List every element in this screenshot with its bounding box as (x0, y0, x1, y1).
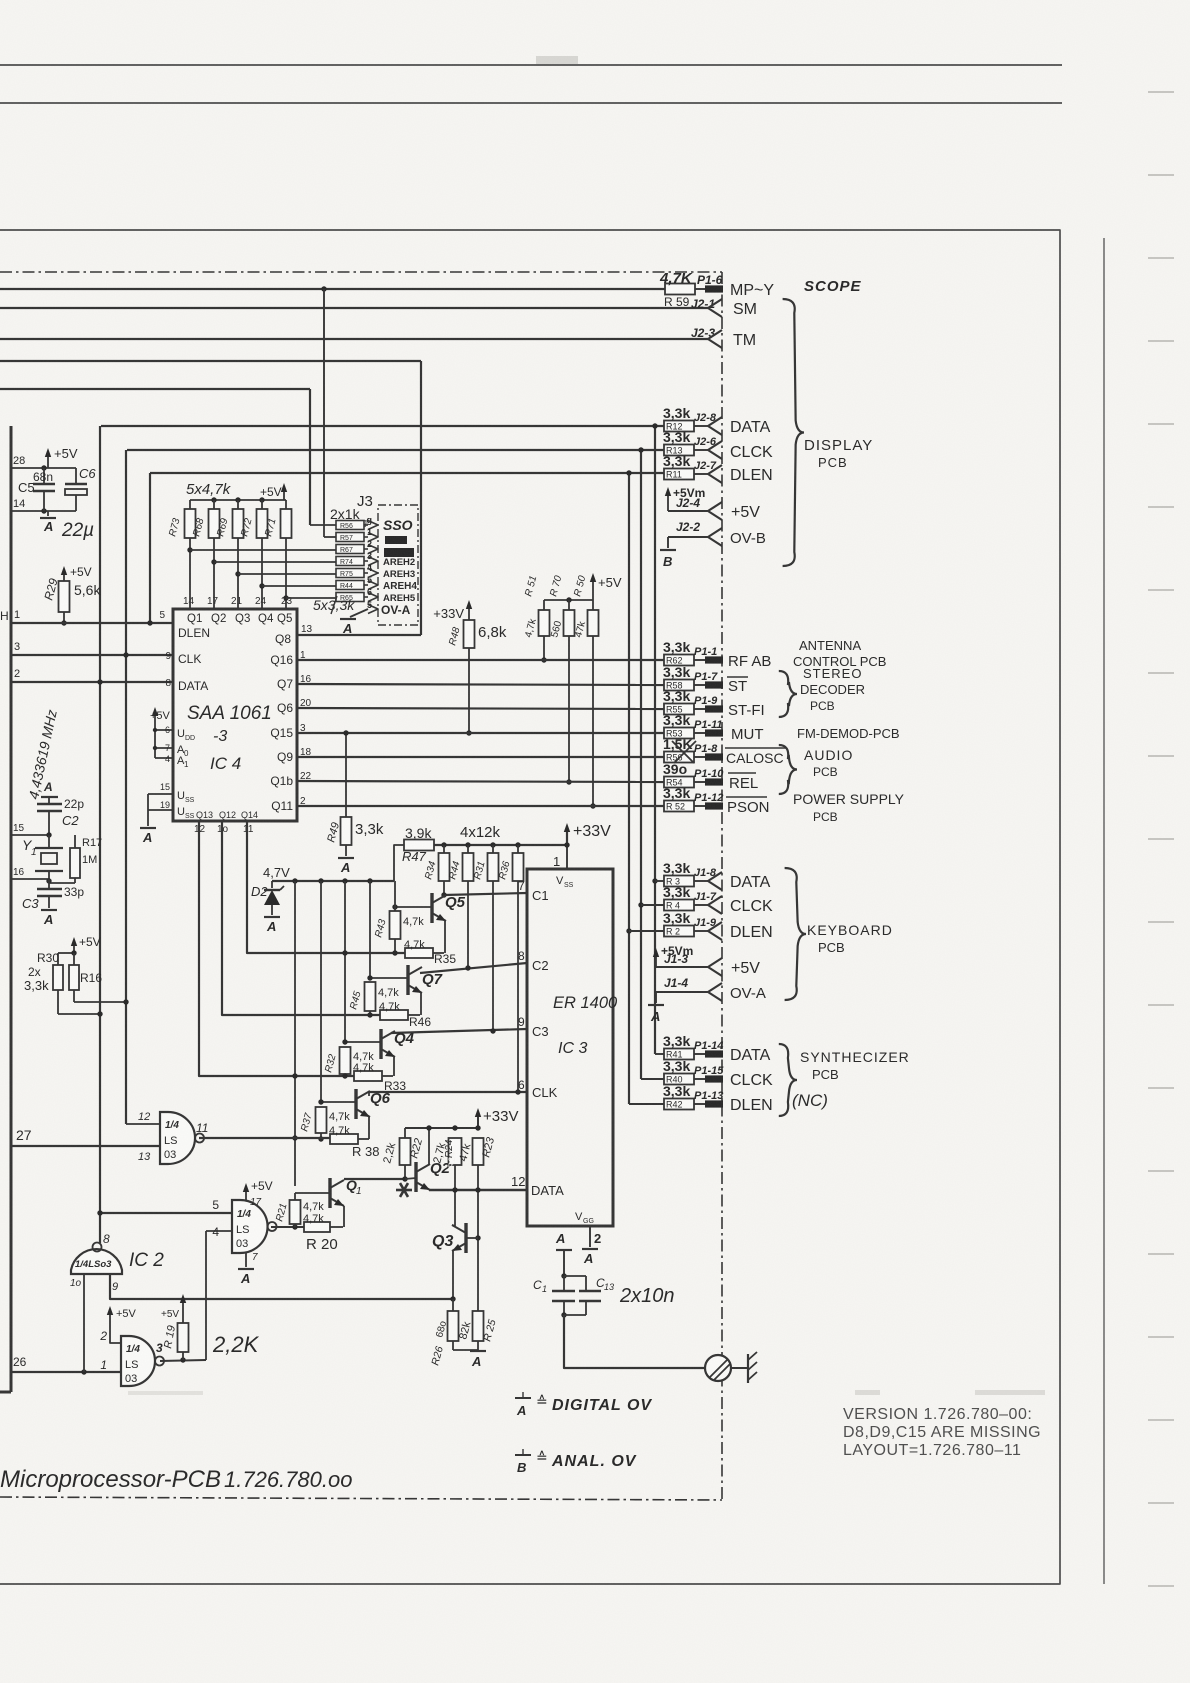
wire CLK er1400 (368, 1091, 527, 1093)
wire 4,7V bus (272, 880, 394, 882)
wire to chassis (564, 1315, 706, 1368)
connector pin arrow J3 row R65 (368, 593, 378, 602)
junction R24 DATA (452, 1187, 457, 1192)
wire CLK bus vertical (125, 450, 127, 1124)
junction C1 R34 (441, 892, 446, 897)
wire DLEN display line (150, 472, 664, 474)
junction base Q5 (392, 904, 397, 909)
analog 0V legend (515, 1454, 531, 1456)
pin 1 wire DLEN (11, 622, 173, 624)
junction base Q7 (367, 975, 372, 980)
junction R16 (123, 999, 128, 1004)
connector pin arrow J3 row R67 (368, 545, 378, 554)
IC SAA1061 IC4 box (173, 609, 297, 821)
brace KEYBOARD (785, 868, 806, 1000)
wire Q6 STFI line (297, 708, 664, 709)
junction base Q4 (342, 1039, 347, 1044)
resistor R44b (467, 845, 469, 853)
resistor R69 (237, 500, 239, 509)
junction DLEN bus top (626, 470, 631, 475)
junction bus x345 (342, 878, 347, 883)
resistor R38 (330, 1134, 358, 1144)
resistor R44 (336, 581, 364, 590)
wire Q6 collector to CLK (368, 1092, 370, 1096)
junction bus x321 (318, 878, 323, 883)
G2 +5V pin 14 (245, 1187, 247, 1200)
junction R73 row (187, 547, 192, 552)
resistor R59 4,7K (665, 284, 695, 295)
wire Vss (566, 845, 568, 869)
junction R51 RFAB (541, 657, 546, 662)
gate G2 1/4 LS03 (232, 1200, 268, 1253)
resistor R32 (340, 1047, 351, 1074)
capacitor C1 (563, 1276, 565, 1291)
wire R40 corner (641, 1078, 664, 1080)
pin 28 wire (11, 467, 76, 469)
wire Q8 pin13 (297, 634, 421, 636)
wire G1 output (199, 1137, 330, 1139)
gate G4 1/4 LS03 (121, 1336, 155, 1386)
+33V rail Q2 (405, 1127, 478, 1129)
crystal Y1 (35, 847, 63, 849)
resistor R54 (664, 777, 694, 788)
wire base lead Q4 (345, 1041, 381, 1043)
junction R36 (515, 842, 520, 847)
connector J3 box dash-dot (378, 505, 418, 625)
resistor R20 (304, 1222, 330, 1232)
rung Q4 (344, 881, 346, 1042)
wire G2 input 5 (100, 1212, 232, 1214)
junction x295 G1out (292, 1135, 297, 1140)
wire G2 output (271, 1226, 304, 1228)
junction R72 row (259, 583, 264, 588)
junction R21 bottom (292, 1224, 297, 1229)
transistor Q5 (430, 893, 433, 923)
resistor R67 (336, 545, 364, 554)
resistor R55 (664, 704, 694, 715)
transistor Q3 (464, 1223, 467, 1253)
wire R2 (629, 930, 664, 932)
junction R32 bottom (342, 1073, 347, 1078)
junction R3 (652, 878, 657, 883)
wire R30 to DATA bus (57, 990, 59, 1014)
resistor R26 (452, 1299, 454, 1311)
resistor R41 (664, 1049, 694, 1060)
pin 27 wire (11, 1145, 160, 1147)
ground A R25 (453, 1349, 478, 1351)
transistor Q6 (354, 1089, 357, 1119)
resistor R45 (365, 982, 376, 1011)
resistors R30 R16 2x3,3k (73, 941, 75, 953)
junction C5 bottom (41, 508, 46, 513)
wire G2 input 4 (206, 1230, 232, 1232)
junction C1 top (561, 1273, 566, 1278)
wire Q2 collector (428, 1128, 430, 1165)
resistor R19 (182, 1298, 184, 1310)
+5Vm arrow J2-4 (667, 491, 669, 511)
resistor R 4 (664, 900, 694, 911)
capacitor C3 (48, 879, 50, 889)
+5Vm arrow J1-3 (655, 952, 657, 967)
junction rail R23 (475, 1125, 480, 1130)
connector stub MP-Y (705, 285, 723, 292)
resistor R23 (473, 1138, 484, 1165)
chassis earth circle (705, 1355, 731, 1381)
wire SSO top line (0, 388, 310, 390)
brace STEREO (779, 671, 797, 717)
wire AREH3 row (238, 573, 336, 575)
resistor R56 (336, 521, 364, 530)
resistor R53 (664, 728, 694, 739)
wire R41 corner (655, 1053, 664, 1055)
ground A D2 (264, 916, 280, 918)
resistor R43 (390, 911, 401, 939)
brace AUDIO (779, 745, 797, 794)
junction R31 (490, 842, 495, 847)
IC ER1400 IC3 box (527, 869, 613, 1226)
ground A R49 (338, 857, 354, 859)
junction CLK R36 (515, 1089, 520, 1094)
paper texture (0, 0, 1, 1)
resistor R 52 (664, 801, 694, 812)
wire C3 (391, 1029, 527, 1033)
PCB boundary dash-dot right (721, 272, 723, 1500)
junction CLK (123, 652, 128, 657)
junction C3 R31 (490, 1028, 495, 1033)
wire row2 (323, 523, 325, 537)
junction C2 R44 (465, 965, 470, 970)
junction R68 row (211, 559, 216, 564)
wire J1-3 (656, 966, 708, 968)
wire DLEN bus right vertical (628, 473, 630, 1104)
pin 26 wire (11, 1371, 121, 1373)
ground A J3 (350, 609, 368, 617)
resistor R70 (568, 600, 570, 610)
resistor R21 (294, 1193, 296, 1200)
wire R16 to CLK bus (73, 990, 75, 1002)
junction C3 top (46, 878, 51, 883)
resistor R46 (380, 1010, 408, 1020)
wire base lead Q7 (370, 977, 408, 979)
ground A C3 (41, 909, 57, 911)
wire R3 (655, 880, 664, 882)
wire SSO drop (323, 289, 325, 523)
resistor R31 (492, 845, 494, 853)
resistor R40 (664, 1074, 694, 1085)
resistor R48 +33V (468, 604, 470, 620)
wire AREH5 row (286, 597, 336, 599)
resistor R68 (213, 500, 215, 509)
junction C5 top (41, 465, 46, 470)
wire pin11 route (247, 821, 405, 953)
junction bus Q4 pin11 (342, 950, 347, 955)
junction x295 pin12 (292, 1073, 297, 1078)
ground A C5 (47, 511, 49, 516)
wire DATA bus vertical (99, 426, 101, 1243)
vertical x295 (294, 881, 296, 1186)
pin 3 wire CLK (11, 654, 173, 656)
wire Q10 REL line (297, 781, 664, 782)
wire C2 (420, 963, 527, 973)
resistor R33 (354, 1071, 382, 1081)
wire DLEN vertical (149, 473, 151, 623)
resistor R73 (189, 500, 191, 509)
resistor R56 (664, 752, 694, 763)
resistor R49 (345, 733, 347, 817)
wire J2-2 (668, 536, 708, 538)
resistor R51 (543, 600, 545, 610)
junction R34 (441, 842, 446, 847)
wire Q9 CALOSC line (297, 756, 664, 758)
junction R37 bottom (318, 1136, 323, 1141)
resistor R22 (404, 1128, 406, 1138)
junction Y1 top (46, 832, 51, 837)
transistor Q2 (414, 1162, 417, 1192)
junction G2 in5 (97, 1210, 102, 1215)
resistor R72 (261, 500, 263, 509)
junction CLCK bus top (638, 447, 643, 452)
SAA pin Udd +5V (154, 711, 156, 730)
resistor R17 (74, 835, 76, 848)
junction pin26 gate (81, 1369, 86, 1374)
pin 2 Vgg ground (589, 1226, 591, 1247)
rung Q6 (320, 881, 322, 1102)
junction R44 (465, 842, 470, 847)
page edge ticks (1148, 91, 1174, 93)
resistor R71 (285, 500, 287, 509)
junction Q3 base (475, 1235, 480, 1240)
wire R42 corner (629, 1103, 664, 1105)
resistor R35 (405, 948, 433, 958)
resistor R36 (517, 845, 519, 853)
capacitor C2 (37, 803, 62, 805)
wire R4 (641, 904, 664, 906)
capacitor C13 (579, 1290, 601, 1293)
connector pin arrow J3 row R56 (368, 521, 378, 530)
resistor R58 (664, 680, 694, 691)
junction DATA bus top (652, 423, 657, 428)
wire Q16 RFAB line (297, 659, 664, 661)
PCB boundary dash-dot top (0, 271, 722, 273)
junction R71 row (283, 595, 288, 600)
junction bus x370 (367, 878, 372, 883)
junction R50 PSON (590, 803, 595, 808)
page binding mark line (1103, 238, 1105, 1584)
resistor R13 (664, 445, 694, 456)
resistor R25 (473, 1311, 484, 1341)
wire Q7 ST line (297, 684, 664, 685)
wire DATA er1400 (429, 1189, 527, 1191)
brace SYNTHESIZER (779, 1044, 797, 1116)
junction R30 (97, 1011, 102, 1016)
connector pin arrow J3 row R74 (368, 557, 378, 566)
J3 signal OUT (385, 536, 407, 544)
wire DATA bus right vertical (654, 426, 656, 1054)
resistor R42 (664, 1099, 694, 1110)
J3 OV-A pin arrow (368, 605, 378, 614)
PCB boundary dash-dot bottom (0, 1497, 722, 1500)
wire Q15 MUT line (297, 732, 664, 734)
connector pin arrow J3 row R75 (368, 569, 378, 578)
wire AREH2 row (214, 561, 336, 563)
resistor R24 (449, 1138, 462, 1165)
chassis ground symbol (747, 1354, 749, 1383)
wire CLCK display line (127, 449, 664, 451)
G3 left leg (83, 1274, 85, 1372)
wire Q11 PSON line (297, 805, 664, 807)
wire C1 (444, 893, 527, 895)
junction R45 bottom (367, 1012, 372, 1017)
wire pin12 route (199, 821, 354, 1076)
wire G4 input 2 +5V (110, 1323, 121, 1343)
gate G1 1/4 LS03 (160, 1112, 195, 1164)
capacitor C6 (75, 468, 77, 484)
page rule top 1 (0, 64, 1062, 66)
page rule top 2 (0, 102, 1062, 104)
transistor Q1 (328, 1178, 331, 1208)
connector pin arrow J3 row R57 (368, 533, 378, 542)
wire TM line (0, 338, 708, 340)
wire SM line (0, 307, 708, 309)
G2 pin 7 ground (245, 1253, 247, 1267)
wire DATA display line (101, 425, 664, 427)
pin 2 wire DATA (11, 681, 173, 683)
asterisk (396, 1189, 412, 1192)
resistor R62 (664, 655, 694, 666)
pin 16 wire (11, 878, 49, 880)
ground B (660, 549, 676, 551)
resistor R29 (63, 570, 65, 581)
junction C1 bottom (561, 1312, 566, 1317)
wire base lead Q6 (321, 1101, 356, 1103)
wire G4 output (160, 1360, 206, 1361)
G3 right leg to long line (110, 1274, 453, 1299)
wire Q1 collector to Q2 base (344, 1178, 405, 1180)
junction R19 bottom (180, 1357, 185, 1362)
wire MP-Y line (0, 288, 666, 290)
junction R48 MUT (466, 730, 471, 735)
digital 0V legend (515, 1397, 531, 1399)
wire Q2 base lead (405, 1178, 416, 1179)
ground A Uss (140, 827, 156, 829)
brace DISPLAY PCB (783, 299, 804, 566)
SAA pin Uss ground (148, 793, 173, 795)
wire G1 input 12 (126, 1123, 160, 1125)
junction R29 (61, 620, 66, 625)
rail R51 R70 R50 +5V (544, 599, 593, 601)
wire J2-4 (668, 510, 708, 512)
junction R43 bottom (392, 950, 397, 955)
microprocessor IC edge (10, 426, 13, 1392)
junction R70 REL (566, 779, 571, 784)
transistor Q4 (379, 1029, 382, 1059)
pin 14 wire (11, 510, 76, 512)
resistor R37 (316, 1107, 327, 1133)
+33V arrow main (566, 827, 568, 845)
wire base lead Q5 (395, 906, 432, 908)
junction R49 top (343, 730, 348, 735)
resistor R34 (443, 845, 445, 853)
pin 15 wire (11, 834, 49, 836)
wire Q3 base lead (466, 1237, 478, 1239)
wire Q8 top line (0, 360, 421, 362)
wire Q2 emitter DATA (428, 1189, 430, 1190)
junction bus x295 (292, 878, 297, 883)
wire chassis stub (731, 1367, 748, 1369)
schematic frame (0, 230, 1060, 1584)
junction DATA (97, 679, 102, 684)
junction R22 base (402, 1176, 407, 1181)
wire Q8 vertical (420, 361, 422, 635)
junction Q3 emitter line (450, 1296, 455, 1301)
resistor R 3 (664, 876, 694, 887)
resistor R75 (336, 569, 364, 578)
+5V arrow C5 (47, 452, 49, 468)
wire AREH4 row (262, 585, 336, 587)
wire Q3 collector (452, 1225, 455, 1226)
junction R4 (638, 902, 643, 907)
wire Q3 emitter (452, 1250, 454, 1299)
faint header mark (536, 56, 578, 64)
wire SSO vertical (309, 389, 311, 525)
wire J1-4 (656, 991, 708, 993)
capacitor C5 (43, 468, 45, 484)
resistor R 2 (664, 926, 694, 937)
wire base lead Q1 (295, 1192, 330, 1194)
ground A keyboard (648, 1004, 664, 1006)
resistor R65 (336, 593, 364, 602)
resistor R12 (664, 421, 694, 432)
connector pin arrow J3 row R44 (368, 581, 378, 590)
faint scan marks (855, 1390, 880, 1395)
transistor Q7 (406, 965, 409, 995)
wire CLCK bus right vertical (640, 450, 642, 1079)
junction rail R24 (452, 1125, 457, 1130)
junction R2 (626, 928, 631, 933)
wire AREH1 row (190, 549, 336, 551)
junction R69 row (235, 571, 240, 576)
pullup rail +5V (190, 499, 286, 501)
J3 signal AREH1 (384, 548, 414, 557)
resistor R47 3,9k (394, 845, 404, 881)
wire SSO row (310, 524, 336, 526)
junction R23 DATA (475, 1187, 480, 1192)
resistor R11 (664, 469, 694, 480)
junction DLEN (147, 620, 152, 625)
gate G3 dome 1/4LSo3 (71, 1249, 122, 1274)
resistor R74 (336, 557, 364, 566)
junction base Q6 (318, 1099, 323, 1104)
resistor R57 (336, 533, 364, 542)
rung Q7 (369, 881, 371, 978)
wire pin10 route (222, 821, 380, 1015)
resistor R50 (592, 600, 594, 610)
junction MP-Y to SSO (321, 286, 326, 291)
